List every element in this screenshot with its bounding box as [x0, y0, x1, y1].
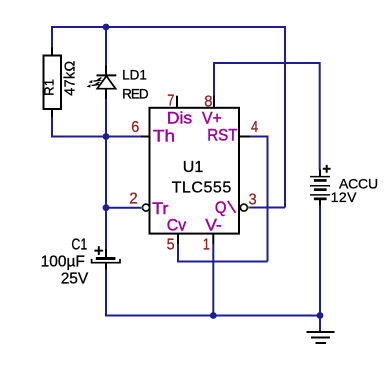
- svg-text:8: 8: [204, 93, 212, 111]
- svg-text:6: 6: [131, 119, 139, 137]
- LED LD1 light arrow upper: [94, 78, 102, 82]
- capacitor C1 plus sign: [94, 246, 103, 255]
- U1 pin 6 stub Th: [141, 136, 150, 138]
- battery plus sign: [323, 165, 331, 173]
- svg-text:12V: 12V: [331, 189, 358, 205]
- junction dot battery ground: [317, 312, 324, 319]
- U1 pin 4 stub RST: [239, 136, 250, 138]
- LED LD1 light arrow lower: [92, 82, 100, 86]
- junction dot pin6 node: [103, 133, 110, 140]
- U1 pin 5 stub Cv: [177, 234, 179, 244]
- junction dot pin1 bottom rail: [210, 312, 217, 319]
- svg-text:7: 7: [167, 92, 174, 110]
- svg-text:RST: RST: [207, 126, 237, 145]
- wire V+ pin8 up and right to battery: [214, 63, 320, 170]
- svg-text:1: 1: [203, 236, 210, 254]
- resistor R1 body: [44, 48, 62, 118]
- LED LD1 arrowhead upper: [89, 80, 93, 83]
- svg-text:C1: C1: [71, 235, 87, 253]
- wire top rail from R1 top to Q output vertical: [52, 27, 285, 208]
- svg-text:3: 3: [249, 191, 257, 209]
- U1 pin 7 stub Dis: [176, 96, 178, 108]
- svg-text:4: 4: [251, 119, 258, 137]
- svg-text:100µF: 100µF: [41, 254, 85, 271]
- wire pin3 Q to right vertical: [248, 207, 285, 209]
- svg-text:RED: RED: [122, 86, 149, 101]
- svg-text:25V: 25V: [61, 270, 89, 287]
- svg-text:Tr: Tr: [152, 198, 169, 217]
- svg-text:TLC555: TLC555: [172, 180, 232, 197]
- wire LED branch down through C1 to bottom rail: [106, 27, 320, 316]
- wire R1 bottom to pin6: [52, 117, 141, 137]
- U1 pin name Q backslash stroke: [228, 201, 236, 213]
- svg-text:R1: R1: [42, 79, 57, 96]
- ground symbol: [307, 332, 335, 343]
- green pin connect dot pin3: [248, 207, 250, 209]
- battery ACCU symbol: [310, 170, 330, 206]
- svg-text:LD1: LD1: [122, 67, 147, 82]
- LED LD1 arrowhead lower: [87, 84, 91, 87]
- wire battery bottom to ground junction: [319, 205, 321, 331]
- wire pin1 V- down to bottom rail: [212, 244, 214, 316]
- LED LD1 symbol: [97, 66, 117, 100]
- U1 pin 1 stub V-: [212, 234, 214, 244]
- svg-text:2: 2: [129, 190, 137, 207]
- svg-text:V-: V-: [205, 215, 222, 235]
- svg-text:47kΩ: 47kΩ: [62, 60, 78, 95]
- wire pin2 trigger to LED/C1 vertical: [106, 207, 142, 209]
- U1 pin 8 stub V+: [213, 96, 215, 108]
- capacitor C1 body: [92, 249, 120, 270]
- svg-text:Th: Th: [153, 126, 175, 145]
- IC U1 TLC555 body box: [150, 108, 240, 234]
- wire pin5 Cv to pin4 net: [178, 244, 268, 262]
- junction dot top rail / LED: [103, 24, 110, 31]
- svg-text:Cv: Cv: [167, 216, 187, 235]
- U1 pin 2 inversion bubble: [143, 204, 150, 211]
- svg-text:5: 5: [167, 236, 175, 254]
- green pin connect dot pin2: [141, 207, 143, 209]
- junction dot pin2 node: [103, 204, 110, 211]
- svg-text:U1: U1: [183, 159, 204, 176]
- svg-text:Dis: Dis: [167, 108, 192, 128]
- svg-text:V+: V+: [202, 109, 222, 128]
- wire pin4 RST down: [250, 137, 268, 262]
- U1 pin 3 inversion bubble: [240, 204, 247, 211]
